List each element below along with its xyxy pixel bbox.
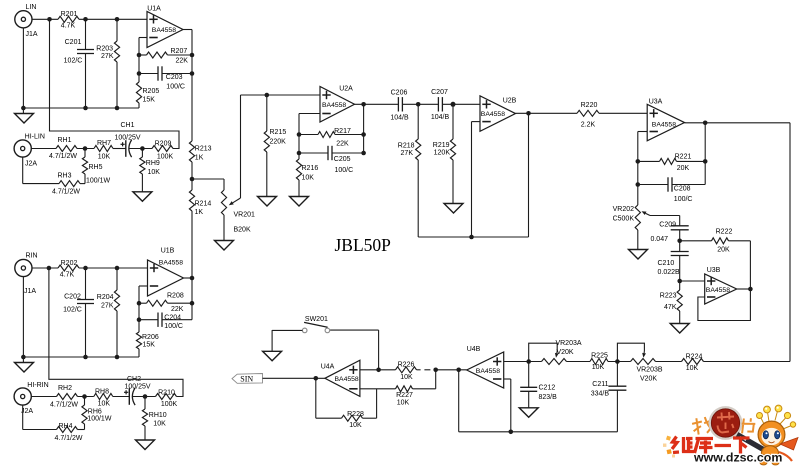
ground under VR201: [215, 241, 234, 251]
svg-text:VR203A: VR203A: [555, 340, 581, 347]
svg-text:BA4558: BA4558: [652, 122, 676, 129]
svg-text:U4A: U4A: [321, 363, 335, 370]
ground symbol under J1A: [15, 114, 34, 124]
op-amp U4B BA4558 (left-pointing): [467, 352, 504, 388]
svg-text:22K: 22K: [176, 57, 189, 64]
resistor R209 100K: [152, 146, 173, 152]
svg-text:100/25V: 100/25V: [124, 384, 150, 391]
node X junction: [190, 177, 195, 182]
svg-text:C206: C206: [391, 90, 408, 97]
svg-text:4.7/1/2W: 4.7/1/2W: [50, 401, 78, 408]
ground under VR202: [629, 250, 648, 260]
wire R202 to U1B + input: [79, 267, 148, 269]
capacitor CH1 100/25V polar: [125, 140, 127, 157]
watermark character pian (chip) orange outline: [741, 417, 756, 435]
wire J2A to RH1: [31, 148, 56, 150]
svg-text:R204: R204: [97, 294, 114, 301]
svg-text:10K: 10K: [592, 364, 605, 371]
svg-text:R206: R206: [142, 334, 159, 341]
op-amp U3A BA4558: [647, 104, 684, 141]
wire J1A to R202: [32, 267, 58, 269]
wire CH2 to node B2: [133, 396, 156, 398]
node B junction: [140, 146, 145, 151]
svg-text:10K: 10K: [98, 154, 111, 161]
wire U4B inverting input down: [504, 378, 511, 380]
resistor R214 1K: [191, 179, 193, 190]
resistor R224 10K: [682, 359, 704, 365]
svg-text:10K: 10K: [302, 174, 315, 181]
svg-text:1K: 1K: [195, 155, 204, 162]
node SIN junction: [314, 376, 319, 381]
capacitor C205 100/C feedback: [297, 151, 302, 156]
svg-text:U3A: U3A: [649, 98, 663, 105]
svg-text:102/C: 102/C: [64, 58, 83, 65]
op-amp U1A BA4558: [147, 12, 183, 48]
wire CH1 to node B: [130, 148, 153, 150]
svg-text:B20K: B20K: [234, 227, 251, 234]
resistor R207 22K feedback: [137, 53, 142, 58]
resistor R222 20K: [680, 240, 712, 242]
node C209/C210 junction: [677, 239, 682, 244]
wire U2A inverting input: [299, 113, 320, 115]
svg-text:R226: R226: [398, 361, 415, 368]
resistor R210 100K: [156, 394, 177, 400]
wire C207 to U2B + input: [442, 103, 480, 105]
node U3B + input junction: [677, 279, 682, 284]
svg-text:U1B: U1B: [161, 248, 175, 255]
capacitor C210 0.022B: [679, 241, 681, 252]
wire VR201 wiper to U2A + input: [241, 94, 321, 96]
capacitor CH2 100/25V polar: [128, 388, 130, 405]
svg-text:VR201: VR201: [234, 212, 256, 219]
resistor RH3 4.7/1/2W: [22, 157, 24, 184]
wire SW201 to ground: [272, 329, 302, 331]
watermark mascot head: [758, 421, 785, 448]
svg-text:4.7/1/2W: 4.7/1/2W: [52, 189, 80, 196]
wire U1A output down to R213: [183, 29, 192, 31]
svg-text:27K: 27K: [401, 150, 414, 157]
svg-text:V20K: V20K: [640, 375, 657, 382]
svg-text:RH2: RH2: [58, 385, 72, 392]
wire U1B inverting input: [139, 285, 148, 287]
wire U4B output feedback down: [458, 370, 460, 432]
svg-text:100/1W: 100/1W: [86, 177, 111, 184]
capacitor C204 100/C feedback: [137, 317, 142, 322]
wire VR203B to R224: [656, 361, 682, 363]
svg-text:R202: R202: [61, 260, 78, 267]
potentiometer VR202 C500K: [637, 185, 639, 206]
wire loop from R210 up and left to R202 input node: [49, 268, 183, 397]
op-amp U4A BA4558 (left-pointing): [325, 360, 360, 396]
node A2 junction: [82, 394, 87, 399]
svg-text:RH6: RH6: [88, 408, 102, 415]
svg-text:10K: 10K: [686, 365, 699, 372]
svg-text:100K: 100K: [161, 401, 178, 408]
wire C206 to C207: [402, 103, 438, 105]
svg-text:HI-RIN: HI-RIN: [27, 382, 48, 389]
wire loop from R209 up and left to R201 input node: [50, 19, 180, 148]
svg-text:R228: R228: [347, 411, 364, 418]
svg-text:BA4558: BA4558: [476, 368, 500, 375]
wire RH7 to CH1: [113, 148, 126, 150]
svg-text:27K: 27K: [101, 303, 114, 310]
svg-text:J1A: J1A: [25, 31, 37, 38]
svg-text:V20K: V20K: [556, 349, 573, 356]
node A junction: [83, 146, 88, 151]
svg-text:4.7/1/2W: 4.7/1/2W: [54, 435, 82, 442]
svg-text:VR202: VR202: [613, 206, 635, 213]
svg-text:R208: R208: [167, 293, 184, 300]
svg-text:R201: R201: [61, 11, 78, 18]
connector J1A (RIN input jack): [15, 259, 32, 276]
svg-text:C211: C211: [592, 381, 608, 388]
svg-text:100/C: 100/C: [674, 196, 693, 203]
svg-text:U2B: U2B: [503, 97, 517, 104]
svg-text:15K: 15K: [143, 96, 156, 103]
svg-text:C202: C202: [64, 294, 81, 301]
svg-text:R219: R219: [433, 142, 450, 149]
svg-text:LIN: LIN: [26, 4, 37, 11]
svg-text:BA4558: BA4558: [706, 287, 730, 294]
svg-text:10K: 10K: [349, 422, 362, 429]
svg-text:100/C: 100/C: [335, 167, 354, 174]
svg-text:100/C: 100/C: [164, 323, 183, 330]
node B2 junction: [143, 394, 148, 399]
wire J1A to R201: [32, 18, 58, 20]
svg-text:U1A: U1A: [147, 6, 161, 13]
connector J1A (LIN input jack): [15, 11, 32, 28]
svg-text:4.7K: 4.7K: [60, 271, 75, 278]
op-amp U2A BA4558: [320, 87, 355, 123]
svg-text:2.2K: 2.2K: [581, 122, 596, 129]
VR202 wiper arrow: [650, 215, 680, 217]
svg-text:C212: C212: [539, 385, 556, 392]
capacitor C206 104/B: [397, 97, 399, 111]
wire U2A output: [355, 103, 399, 105]
svg-text:RH7: RH7: [97, 140, 111, 147]
wire U3B feedback loop: [698, 289, 751, 321]
wire R225 to node C211: [608, 361, 631, 363]
resistor R206 15K: [138, 320, 140, 332]
svg-text:R216: R216: [302, 165, 319, 172]
VR201 wiper arrow to U2A: [240, 95, 242, 198]
capacitor C209 0.047: [679, 216, 681, 226]
svg-text:SW201: SW201: [305, 316, 328, 323]
svg-text:20K: 20K: [677, 165, 690, 172]
svg-text:CH1: CH1: [120, 122, 134, 129]
ground under C212: [519, 408, 538, 418]
svg-text:220K: 220K: [270, 139, 287, 146]
svg-text:C209: C209: [659, 221, 676, 228]
svg-text:C208: C208: [674, 185, 691, 192]
svg-text:JBL50P: JBL50P: [335, 235, 392, 255]
svg-text:100/25V: 100/25V: [114, 135, 140, 142]
svg-text:27K: 27K: [101, 53, 114, 60]
svg-text:R213: R213: [195, 146, 212, 153]
wire U1A inverting input: [139, 37, 147, 39]
resistor R215 220K: [266, 95, 268, 131]
svg-text:4.7K: 4.7K: [61, 23, 76, 30]
capacitor C203 100/C feedback: [137, 71, 142, 76]
svg-text:R227: R227: [396, 392, 413, 399]
wire bottom rail to C211: [459, 431, 618, 433]
wire U4B + input: [504, 361, 542, 363]
net tag SIN: [232, 374, 263, 384]
svg-text:100/C: 100/C: [166, 84, 185, 91]
svg-text:R210: R210: [158, 389, 175, 396]
svg-text:100/1W: 100/1W: [87, 416, 112, 423]
wire U2A feedback vertical: [363, 104, 365, 153]
svg-text:R205: R205: [143, 88, 160, 95]
svg-text:104/B: 104/B: [390, 115, 409, 122]
resistor R201 4.7K: [58, 16, 79, 22]
svg-text:R215: R215: [270, 129, 287, 136]
svg-text:120K: 120K: [434, 150, 451, 157]
watermark character zhao (find) orange outline: [691, 416, 714, 435]
ground symbol under RIN J1A: [15, 363, 34, 373]
connector J2A (HI-RIN jack): [14, 388, 31, 405]
resistor R220 2.2K: [577, 110, 599, 116]
svg-text:BA4558: BA4558: [481, 111, 505, 118]
svg-text:334/B: 334/B: [591, 391, 610, 398]
svg-text:C500K: C500K: [613, 216, 635, 223]
resistor RH6 100/1W: [84, 397, 86, 406]
wire right-side feedback down to R224: [789, 123, 791, 362]
resistor R225 10K: [590, 359, 608, 365]
ground under RH10: [136, 440, 155, 450]
svg-text:SIN: SIN: [240, 375, 253, 384]
svg-text:R225: R225: [591, 353, 608, 360]
resistor RH2 4.7/1/2W: [57, 394, 78, 400]
resistor R208 22K feedback: [137, 301, 142, 306]
resistor RH10 10K: [144, 397, 146, 410]
wire U3A inverting input: [638, 131, 647, 133]
capacitor C207 104/B: [437, 97, 439, 111]
svg-text:4.7/1/2W: 4.7/1/2W: [49, 153, 77, 160]
svg-text:RIN: RIN: [25, 253, 37, 260]
watermark mascot antenna balls: [757, 405, 796, 429]
svg-text:BA4558: BA4558: [159, 259, 183, 266]
potentiometer VR201 B20K: [192, 178, 224, 180]
svg-text:RH8: RH8: [95, 388, 109, 395]
svg-text:0.047: 0.047: [650, 236, 668, 243]
svg-text:C207: C207: [431, 89, 448, 96]
wire U4A + input to R226: [360, 369, 396, 371]
op-amp U1B BA4558: [148, 260, 184, 296]
svg-text:15K: 15K: [143, 341, 156, 348]
svg-text:R207: R207: [171, 48, 188, 55]
node junction before R202: [47, 266, 52, 271]
ground under R216: [290, 197, 309, 207]
svg-text:R203: R203: [96, 46, 113, 53]
node junction before R201: [47, 17, 52, 22]
svg-text:R223: R223: [660, 292, 677, 299]
svg-text:10K: 10K: [397, 400, 410, 407]
svg-text:R224: R224: [686, 354, 703, 361]
resistor RH1 4.7/1/2W: [56, 146, 77, 152]
resistor RH5 100/1W: [84, 149, 86, 158]
ground under RH9: [133, 192, 152, 202]
watermark dzsc logo group: [663, 436, 675, 458]
svg-text:RH4: RH4: [58, 423, 72, 430]
capacitor C208 100/C feedback: [636, 182, 641, 187]
capacitor C212 823/B: [528, 362, 530, 388]
svg-text:R220: R220: [581, 102, 598, 109]
svg-text:823/B: 823/B: [539, 394, 558, 401]
resistor R226 10K: [396, 367, 417, 373]
resistor RH7 10K: [94, 146, 113, 152]
ground under R215: [258, 197, 277, 207]
svg-text:www.dzsc.com: www.dzsc.com: [693, 451, 782, 465]
svg-text:BA4558: BA4558: [322, 102, 346, 109]
resistor R227 10K: [360, 388, 396, 390]
watermark magnifier red circle with chip character: [710, 407, 741, 438]
resistor R223 47K: [679, 281, 681, 290]
svg-text:RH10: RH10: [149, 412, 167, 419]
wire U2B feedback bottom: [418, 236, 528, 238]
svg-text:C205: C205: [334, 156, 351, 163]
resistor R217 22K feedback: [297, 132, 302, 137]
watermark mascot eyes: [763, 431, 768, 439]
resistor R203 27K: [116, 19, 118, 41]
svg-text:U2A: U2A: [339, 85, 353, 92]
svg-text:J1A: J1A: [24, 288, 36, 295]
wire R201 to U1A + input: [79, 18, 147, 20]
svg-text:R217: R217: [334, 128, 351, 135]
wire RH2 to RH8: [78, 396, 94, 398]
resistor R228 10K feedback: [315, 378, 317, 418]
svg-text:HI-LIN: HI-LIN: [25, 133, 45, 140]
wire U3B output: [737, 288, 751, 290]
svg-text:U3B: U3B: [707, 267, 721, 274]
wire RH1 to RH7: [77, 148, 94, 150]
svg-text:RH3: RH3: [57, 173, 71, 180]
watermark red text weikuyixia: [672, 437, 750, 454]
resistor RH9 10K: [141, 149, 143, 158]
resistor R204 27K: [116, 268, 118, 290]
svg-text:22K: 22K: [336, 140, 349, 147]
wire U2B inverting input down: [472, 121, 481, 123]
resistor R205 15K: [138, 74, 140, 83]
svg-text:C203: C203: [166, 74, 183, 81]
svg-text:U4B: U4B: [467, 346, 481, 353]
wire ground rail of LIN stage: [22, 28, 24, 114]
wire U2B output to R220: [516, 112, 578, 114]
capacitor C211 334/B: [616, 362, 618, 387]
wire J2A to RH2: [31, 396, 56, 398]
resistor R202 4.7K: [58, 265, 79, 271]
wire VR203A to R225: [567, 361, 591, 363]
svg-text:10K: 10K: [400, 374, 413, 381]
svg-text:104/B: 104/B: [431, 114, 450, 121]
svg-text:0.022B: 0.022B: [658, 269, 681, 276]
node R215 junction: [265, 93, 270, 98]
wire R226 dashed link to U4B output node: [417, 369, 421, 371]
wire U3A output to right edge: [685, 122, 791, 124]
svg-text:R218: R218: [398, 142, 415, 149]
svg-text:VR203B: VR203B: [636, 366, 662, 373]
svg-text:J2A: J2A: [25, 161, 37, 168]
op-amp U3B BA4558: [705, 274, 737, 304]
watermark mascot body: [761, 446, 778, 462]
resistor R221 20K feedback: [636, 159, 641, 164]
svg-text:10K: 10K: [153, 420, 166, 427]
watermark mascot ribbon: [780, 438, 798, 451]
wire SIN to U4A: [263, 377, 325, 379]
potentiometer VR203B V20K: [631, 359, 656, 365]
svg-text:20K: 20K: [717, 246, 730, 253]
capacitor C202 102/C: [85, 268, 87, 300]
svg-text:BA4558: BA4558: [335, 376, 359, 383]
potentiometer VR203A V20K: [542, 359, 567, 365]
op-amp U2B BA4558: [480, 96, 516, 132]
resistor RH8 10K: [94, 394, 113, 400]
ground under R219: [444, 204, 463, 214]
svg-text:RH1: RH1: [57, 137, 71, 144]
svg-text:RH9: RH9: [146, 160, 160, 167]
switch SW201: [378, 330, 380, 370]
wire ground rail of RIN stage: [22, 277, 24, 363]
svg-text:47K: 47K: [664, 304, 677, 311]
ground under SW201: [263, 351, 282, 361]
connector J2A (HI-LIN jack): [14, 140, 31, 157]
ground under R223: [670, 324, 689, 334]
svg-text:BA4558: BA4558: [152, 27, 176, 34]
svg-text:C210: C210: [658, 260, 675, 267]
resistor R216 10K: [298, 153, 300, 159]
svg-text:R214: R214: [195, 201, 212, 208]
svg-text:C204: C204: [164, 314, 181, 321]
svg-text:R222: R222: [716, 228, 733, 235]
svg-text:22K: 22K: [171, 306, 184, 313]
capacitor C201 102/C: [85, 19, 87, 49]
resistor R213 1K: [189, 141, 194, 162]
svg-text:R209: R209: [155, 140, 172, 147]
svg-text:1K: 1K: [195, 209, 204, 216]
resistor R219 120K: [452, 104, 454, 139]
svg-text:102/C: 102/C: [63, 307, 82, 314]
svg-text:10K: 10K: [148, 169, 161, 176]
wire RH8 to CH2: [113, 396, 130, 398]
svg-text:C201: C201: [65, 39, 82, 46]
svg-text:R221: R221: [675, 153, 692, 160]
svg-text:10K: 10K: [98, 400, 111, 407]
wire U1B output: [184, 277, 193, 279]
svg-text:RH5: RH5: [89, 164, 103, 171]
watermark magnifier handle / pen: [737, 435, 773, 456]
resistor R218 27K: [417, 104, 419, 139]
resistor RH4 4.7/1/2W: [22, 405, 24, 429]
